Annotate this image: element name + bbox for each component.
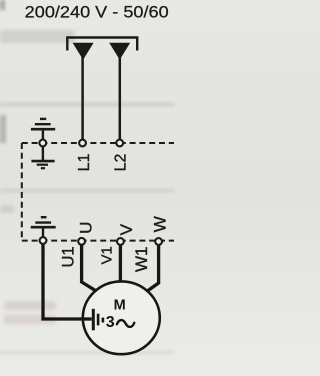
svg-text:L1: L1 xyxy=(76,154,93,172)
svg-text:3: 3 xyxy=(106,314,115,331)
svg-text:U: U xyxy=(77,222,96,234)
svg-text:U1: U1 xyxy=(60,246,78,267)
svg-text:V1: V1 xyxy=(99,246,115,264)
svg-text:W1: W1 xyxy=(132,247,151,273)
svg-text:L2: L2 xyxy=(112,154,129,172)
svg-text:W: W xyxy=(150,216,169,232)
svg-text:200/240 V - 50/60: 200/240 V - 50/60 xyxy=(25,4,169,22)
svg-text:V: V xyxy=(117,223,136,235)
svg-text:M: M xyxy=(114,297,126,313)
